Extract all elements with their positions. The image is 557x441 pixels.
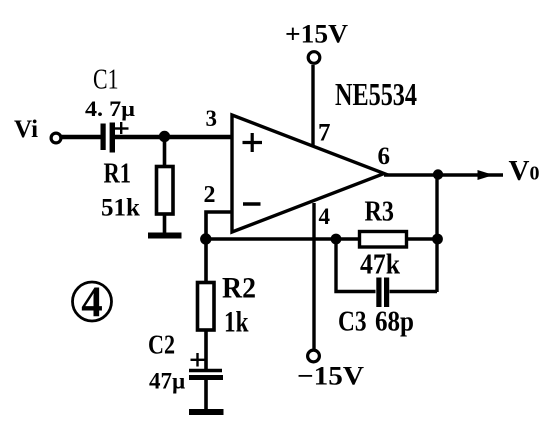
svg-text:6: 6 — [378, 143, 391, 170]
resistor R3 — [360, 232, 407, 248]
resistor R1 — [157, 137, 174, 234]
wire C3 branch left — [336, 239, 376, 292]
wire C3 branch right — [390, 290, 438, 293]
arrow toward V0 — [478, 170, 494, 180]
wire pin 4 to −15V — [312, 203, 315, 349]
junction R3 left — [331, 234, 342, 245]
wire C1 to op-amp pin 3 — [115, 135, 232, 139]
terminal −15V — [308, 350, 320, 362]
ground at R1 — [148, 233, 182, 239]
op-amp U1 NE5534 — [232, 115, 384, 232]
op-amp noninverting + marking — [243, 133, 263, 152]
svg-text:68p: 68p — [375, 307, 414, 338]
svg-text:4: 4 — [319, 204, 331, 229]
svg-text:4. 7µ: 4. 7µ — [85, 96, 135, 121]
svg-text:47µ: 47µ — [149, 369, 185, 394]
wire feedback horizontal — [206, 237, 437, 241]
svg-text:51k: 51k — [101, 195, 140, 222]
svg-text:3: 3 — [206, 106, 218, 131]
svg-text:0: 0 — [530, 163, 540, 185]
svg-text:−15V: −15V — [297, 362, 364, 391]
wire Vi to C1 — [61, 135, 101, 139]
terminal +15V — [308, 52, 320, 64]
wire pin 7 to +15V — [311, 65, 314, 145]
svg-text:V: V — [509, 155, 530, 187]
svg-text:4: 4 — [81, 279, 103, 326]
svg-text:7: 7 — [318, 120, 331, 147]
svg-text:R3: R3 — [365, 196, 395, 228]
svg-text:R2: R2 — [222, 272, 256, 305]
node V0 — [509, 155, 540, 187]
svg-text:1k: 1k — [224, 306, 249, 339]
svg-text:C1: C1 — [93, 65, 119, 96]
op-amp inverting − marking — [243, 202, 261, 206]
svg-text:Vi: Vi — [14, 116, 38, 143]
junction output node — [433, 169, 443, 179]
svg-text:R1: R1 — [104, 158, 132, 190]
ground at C2 — [189, 409, 224, 415]
junction R3 right — [432, 234, 443, 245]
capacitor C2 — [189, 353, 223, 409]
junction feedback node — [200, 233, 211, 244]
resistor R2 — [198, 239, 215, 369]
svg-text:+15V: +15V — [285, 20, 348, 49]
capacitor C1 — [101, 122, 129, 153]
svg-text:2: 2 — [204, 182, 216, 208]
svg-text:C3: C3 — [338, 306, 367, 338]
capacitor C3 — [376, 278, 389, 308]
wire output — [384, 173, 503, 177]
svg-text:47k: 47k — [360, 249, 401, 281]
figure number 4 — [73, 279, 112, 326]
svg-text:NE5534: NE5534 — [335, 76, 417, 112]
wire output node down to feedback — [435, 175, 438, 292]
svg-text:C2: C2 — [148, 330, 175, 360]
junction input node — [159, 131, 170, 142]
wire pin 2 to feedback node — [206, 212, 232, 239]
terminal Vi — [51, 133, 61, 143]
